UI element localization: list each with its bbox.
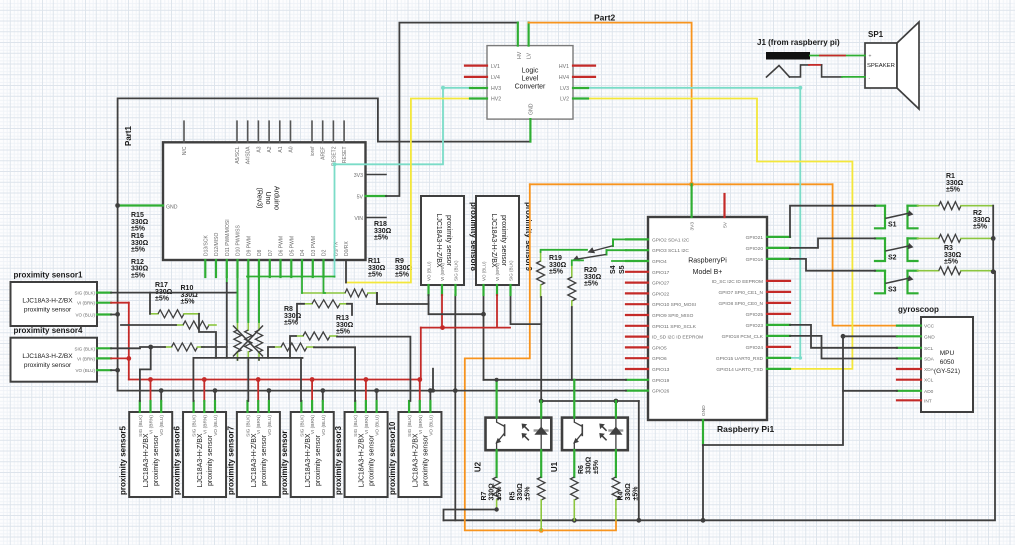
wire cyan arduino D1 <box>335 88 471 277</box>
svg-text:LJC18A3-H-Z/BX: LJC18A3-H-Z/BX <box>22 353 73 360</box>
resistor R2 zigzag <box>918 267 994 275</box>
svg-text:±5%: ±5% <box>374 235 389 242</box>
wire R8 right to sensor3 SIG <box>314 347 355 401</box>
wire jack to speaker + <box>810 55 865 57</box>
svg-text:D0/RX: D0/RX <box>344 241 350 256</box>
svg-text:A0: A0 <box>289 146 295 152</box>
wire opto transistor line <box>484 379 627 381</box>
svg-text:XCL: XCL <box>924 378 934 384</box>
wire sensor1 VI red <box>111 303 129 380</box>
resistor R4 330Ω vertical <box>612 450 639 509</box>
svg-text:±5%: ±5% <box>593 459 600 474</box>
svg-text:SCL: SCL <box>924 346 934 352</box>
svg-text:AREF: AREF <box>321 147 327 160</box>
label SP1 <box>868 30 884 39</box>
svg-text:VCC: VCC <box>924 324 935 330</box>
pins sensor1/4 legs y=282 <box>97 293 111 315</box>
resistor R3 zigzag <box>918 234 994 242</box>
pin LV4 red stub <box>465 76 487 78</box>
resistor R1 zigzag <box>918 202 994 210</box>
wire sensor8/9 VI red <box>421 295 510 380</box>
label R8 330Ω <box>284 306 302 327</box>
svg-text:D12/MISO: D12/MISO <box>214 233 220 256</box>
svg-text:RESET: RESET <box>342 147 348 164</box>
node cyan corner <box>798 86 802 360</box>
svg-text:R7: R7 <box>481 491 488 500</box>
svg-text:VI (BRN): VI (BRN) <box>495 262 500 281</box>
svg-text:±5%: ±5% <box>131 272 146 279</box>
wire jack red overlap <box>820 55 845 57</box>
optocoupler U1 <box>550 418 628 473</box>
wire RPi GPIO23 to MPU SCL <box>790 325 897 348</box>
svg-text:GPIO18 PCM_CLK: GPIO18 PCM_CLK <box>722 334 764 340</box>
svg-text:LJC18A3-H-Z/BX: LJC18A3-H-Z/BX <box>143 433 150 487</box>
svg-text:VI (BRN): VI (BRN) <box>418 415 424 435</box>
wire collector riser c <box>226 277 228 358</box>
switch S4 <box>572 250 606 261</box>
svg-text:A2: A2 <box>267 146 273 152</box>
svg-text:±5%: ±5% <box>944 259 959 266</box>
label R19 330Ω <box>549 255 567 276</box>
svg-text:GPIO11 SPI0_SCLK: GPIO11 SPI0_SCLK <box>652 324 697 330</box>
wire RPi GPIO20 to S2 <box>790 238 875 248</box>
svg-text:LJC18A3-H-Z/BX: LJC18A3-H-Z/BX <box>305 433 312 487</box>
svg-text:Raspberry Pi1: Raspberry Pi1 <box>717 424 774 434</box>
node GND-arduino <box>115 203 120 208</box>
svg-text:SIG (BLK): SIG (BLK) <box>509 260 514 281</box>
svg-text:VI (BRN): VI (BRN) <box>440 262 445 281</box>
pin LV1 red stub <box>465 64 487 66</box>
wire sensor1 VO to GND <box>111 314 118 316</box>
wire D2 to R9 <box>324 277 326 293</box>
svg-text:J1 (from raspberry pi): J1 (from raspberry pi) <box>757 38 840 47</box>
svg-text:±5%: ±5% <box>336 329 351 336</box>
svg-text:R5: R5 <box>510 491 517 500</box>
svg-text:GPIO6: GPIO6 <box>652 356 667 362</box>
svg-text:GPIO2 SDA1 I2C: GPIO2 SDA1 I2C <box>652 237 690 243</box>
pin MPU XDA red stub <box>897 368 921 370</box>
svg-text:±5%: ±5% <box>525 486 532 501</box>
svg-text:D5 PWM: D5 PWM <box>289 236 295 256</box>
svg-text:GPIO21: GPIO21 <box>746 235 764 241</box>
svg-text:GPIO4: GPIO4 <box>652 259 667 265</box>
svg-text:D9 PWM: D9 PWM <box>246 236 252 256</box>
proximity sensor10 LJC18A3-H-Z/BX <box>388 412 442 497</box>
wire x639 LED drop <box>638 401 640 520</box>
svg-text:SIG (BLK): SIG (BLK) <box>353 415 359 437</box>
wire RPi GND to MPU GND <box>703 336 897 445</box>
svg-text:Arduino: Arduino <box>273 186 280 210</box>
svg-text:GND: GND <box>701 405 707 416</box>
wire MPU AD0 left <box>843 390 897 392</box>
label gyroscoop <box>898 305 939 314</box>
svg-text:VO (BLU): VO (BLU) <box>482 261 487 281</box>
resistor R11 zigzag <box>304 300 347 308</box>
svg-text:±5%: ±5% <box>395 272 410 279</box>
svg-text:GPIO20: GPIO20 <box>746 246 764 252</box>
pin MPU INT red stub <box>897 399 921 401</box>
svg-text:SPEAKER: SPEAKER <box>867 63 895 69</box>
wire red VI bus <box>129 379 421 381</box>
resistor R10 zigzag <box>176 321 216 329</box>
wires VO drops black <box>159 388 433 401</box>
svg-text:proximity sensor: proximity sensor <box>369 434 376 486</box>
wire R4 bottom to orange <box>615 509 617 520</box>
wire RPi GPIO3 to S4 <box>607 249 627 251</box>
proximity sensor8 LJC18A3-H-Z/BX <box>421 196 478 285</box>
svg-text:VI (BRN): VI (BRN) <box>149 415 155 435</box>
svg-text:proximity sensor: proximity sensor <box>422 434 429 486</box>
svg-text:D6 PWM: D6 PWM <box>279 236 285 256</box>
wire yellow HV2 to arduino D0 <box>346 99 470 283</box>
svg-text:6050: 6050 <box>940 359 955 366</box>
label R1 330Ω <box>946 173 964 194</box>
svg-text:±5%: ±5% <box>946 187 961 194</box>
wire R10 left black <box>121 324 176 326</box>
wire R19 bottom to opto node <box>540 297 542 401</box>
wire orange Part2 top <box>529 23 692 185</box>
wire R9 right down <box>376 293 378 304</box>
svg-text:GPIO19: GPIO19 <box>652 378 670 384</box>
wire orange to MPU VCC <box>833 184 918 325</box>
svg-text:GPIO9 SPI0_MISO: GPIO9 SPI0_MISO <box>652 313 694 319</box>
svg-text:±5%: ±5% <box>181 299 196 306</box>
pins RPi left legs <box>626 239 648 390</box>
wire arduino VIN stub <box>366 217 387 219</box>
svg-text:VI (BRN): VI (BRN) <box>256 415 262 435</box>
resistor R9 zigzag <box>302 277 377 297</box>
svg-text:AD0: AD0 <box>924 389 934 395</box>
node VO bus bend <box>431 389 435 393</box>
wire U2 transistor leg <box>496 380 498 418</box>
svg-text:Part2: Part2 <box>594 13 616 23</box>
svg-text:330Ω: 330Ω <box>517 483 524 501</box>
switch S5 <box>588 239 614 253</box>
wire GND arduino loop <box>118 98 531 205</box>
svg-text:SIG (BLK): SIG (BLK) <box>74 346 95 351</box>
svg-text:HV2: HV2 <box>491 97 501 103</box>
svg-text:VI (BRN): VI (BRN) <box>77 301 96 306</box>
svg-text:LJC18A3-H-Z/BX: LJC18A3-H-Z/BX <box>490 213 497 267</box>
svg-text:N/C: N/C <box>182 146 188 155</box>
node opto LED U2 <box>539 399 544 404</box>
svg-text:330Ω: 330Ω <box>625 483 632 501</box>
wire converter HV stub <box>517 23 519 46</box>
node opto LED U1 <box>614 399 619 404</box>
svg-text:D10 PWM/SS: D10 PWM/SS <box>236 224 242 256</box>
wire orange rail mid <box>530 183 833 185</box>
svg-text:INT: INT <box>924 398 932 404</box>
node VO bus to drop <box>453 388 458 393</box>
wire orange down left <box>465 184 616 530</box>
svg-text:GPIO7 SPI0_CE1_N: GPIO7 SPI0_CE1_N <box>718 290 763 296</box>
svg-text:(GY-521): (GY-521) <box>934 368 960 375</box>
wire GND left vertical <box>117 206 119 391</box>
label R18 330Ω <box>374 221 392 242</box>
proximity sensor5 LJC18A3-H-Z/BX <box>119 412 173 497</box>
svg-text:proximity sensor3: proximity sensor3 <box>334 426 343 495</box>
optocoupler U2 <box>474 418 552 473</box>
node orange bottom U2 <box>539 528 544 533</box>
wire arduino 5V <box>366 23 518 196</box>
label Raspberry Pi1 <box>717 424 774 434</box>
svg-text:5V: 5V <box>357 195 364 201</box>
svg-text:SIG (BLK): SIG (BLK) <box>246 415 252 437</box>
svg-text:proximity sensor1: proximity sensor1 <box>14 271 83 280</box>
svg-text:LJC18A3-H-Z/BX: LJC18A3-H-Z/BX <box>197 433 204 487</box>
wire converter HV3 stub <box>470 87 487 89</box>
pin MPU VCC leg <box>897 325 921 327</box>
svg-text:SP1: SP1 <box>868 30 884 39</box>
svg-text:LV2: LV2 <box>560 97 569 103</box>
pin MPU SCL leg <box>897 347 921 349</box>
svg-text:SIG (BLK): SIG (BLK) <box>192 415 198 437</box>
wire R11 left <box>297 304 304 320</box>
svg-text:A4/SDA: A4/SDA <box>246 146 252 164</box>
svg-text:LJC18A3-H-Z/BX: LJC18A3-H-Z/BX <box>435 213 442 267</box>
svg-text:±5%: ±5% <box>155 296 170 303</box>
wire converter LV stub <box>527 23 529 46</box>
svg-text:LJC18A3-H-Z/BX: LJC18A3-H-Z/BX <box>251 433 258 487</box>
svg-text:GPIO26: GPIO26 <box>652 389 670 395</box>
label R11 330Ω <box>368 258 386 279</box>
label Part2 <box>594 13 616 23</box>
switch S1 <box>875 206 918 229</box>
svg-text:3V3: 3V3 <box>354 173 363 179</box>
wire riser R8 <box>268 347 274 358</box>
mpu 6050 gyroscope U-MPU (GY-521) <box>921 317 973 412</box>
svg-text:GPIO24: GPIO24 <box>746 345 764 351</box>
svg-text:D11 PWM/MOSI: D11 PWM/MOSI <box>225 219 231 256</box>
svg-text:GPIO10 SPI0_MOSI: GPIO10 SPI0_MOSI <box>652 302 696 308</box>
svg-text:proximity sensor: proximity sensor <box>280 431 289 495</box>
svg-text:LJC18A3-H-Z/BX: LJC18A3-H-Z/BX <box>412 433 419 487</box>
svg-text:GPIO13: GPIO13 <box>652 367 670 373</box>
wire RPi GND to bus <box>702 445 704 520</box>
svg-text:Logic: Logic <box>522 68 539 75</box>
node sensor1 VO junction <box>115 312 120 317</box>
svg-text:S4: S4 <box>610 265 617 274</box>
svg-text:proximity sensor9: proximity sensor9 <box>524 202 533 271</box>
svg-text:LJC18A3-H-Z/BX: LJC18A3-H-Z/BX <box>22 298 73 305</box>
switch S3 <box>875 271 918 294</box>
svg-text:A5/SCL: A5/SCL <box>235 146 241 163</box>
wire S4 to R20 top <box>572 260 583 265</box>
svg-text:GPIO27: GPIO27 <box>652 281 670 287</box>
svg-text:±5%: ±5% <box>973 224 988 231</box>
proximity sensor LJC18A3-H-Z/BX <box>280 412 334 497</box>
svg-text:3V3: 3V3 <box>690 222 696 231</box>
node R2 right <box>991 269 996 274</box>
svg-text:MPU: MPU <box>940 350 955 357</box>
wire arduino D0 leg <box>345 260 347 283</box>
svg-text:LV: LV <box>527 53 533 59</box>
svg-text:proximity sensor: proximity sensor <box>153 434 160 486</box>
resistor R17 zigzag <box>150 310 199 318</box>
pin MPU GND leg <box>897 335 921 337</box>
resistor R5 330Ω vertical <box>510 450 546 509</box>
label R2 330Ω <box>973 210 991 231</box>
svg-text:SIG (BLK): SIG (BLK) <box>74 291 95 296</box>
pins RPi right legs <box>767 237 790 369</box>
node U2 transistor top <box>495 378 499 382</box>
logic level converter U-LLC <box>487 46 573 120</box>
wire R5 bottom to orange <box>540 509 542 530</box>
label R10 330Ω <box>181 285 199 306</box>
wire sensor9 VO drop <box>483 295 485 380</box>
svg-text:HV1: HV1 <box>559 64 569 70</box>
svg-text:GND: GND <box>166 204 178 210</box>
svg-text:VO (BLU): VO (BLU) <box>428 415 434 436</box>
label R9 330Ω <box>395 258 413 279</box>
svg-text:U2: U2 <box>474 461 483 472</box>
pins sensor at x=476 legs <box>484 285 511 295</box>
wire cluster diag link <box>347 304 352 315</box>
svg-text:ID_SC I2C ID EEPROM: ID_SC I2C ID EEPROM <box>712 279 763 285</box>
pins sensor1/4 legs y=337.7 <box>97 348 111 370</box>
wire sensor8 SIG vertical / GND drop <box>454 295 456 520</box>
svg-text:S3: S3 <box>888 287 897 294</box>
node sensor4 VI <box>126 356 131 361</box>
label Part1 <box>124 125 133 146</box>
label R3 330Ω <box>944 245 962 266</box>
svg-text:SIG (BLK): SIG (BLK) <box>407 415 413 437</box>
svg-text:D3 PWM: D3 PWM <box>311 236 317 256</box>
proximity sensor3 LJC18A3-H-Z/BX <box>334 412 388 497</box>
svg-text:proximity sensor6: proximity sensor6 <box>173 426 182 495</box>
wire sensor9 SIG to R19 line <box>511 295 542 324</box>
node R3 right <box>991 236 996 241</box>
wire converter LV2 stub <box>573 97 588 99</box>
svg-text:Converter: Converter <box>515 84 546 91</box>
svg-text:D13/SCK: D13/SCK <box>203 234 209 256</box>
wires SIG staircases <box>140 345 303 401</box>
wire R6 bottom to bus <box>573 509 575 520</box>
pin MPU XCL red stub <box>897 379 921 381</box>
svg-text:R6: R6 <box>578 465 585 474</box>
proximity sensor6 LJC18A3-H-Z/BX <box>173 412 227 497</box>
svg-text:D2: D2 <box>322 249 328 256</box>
svg-text:D7: D7 <box>268 249 274 256</box>
svg-text:±5%: ±5% <box>549 269 564 276</box>
wire RPi 5V leg red <box>723 194 725 217</box>
pin HV1 red stub <box>573 64 595 66</box>
svg-text:330Ω: 330Ω <box>489 483 496 501</box>
wire yellow LV2 to RPi <box>588 99 852 369</box>
svg-text:A3: A3 <box>256 146 262 152</box>
svg-text:GPIO16: GPIO16 <box>746 257 764 263</box>
svg-text:VIN: VIN <box>354 216 363 222</box>
svg-text:ID_SD I2C ID EEPROM: ID_SD I2C ID EEPROM <box>652 335 703 341</box>
svg-text:proximity sensor7: proximity sensor7 <box>226 426 235 495</box>
svg-text:RaspberryPi: RaspberryPi <box>688 258 727 265</box>
svg-text:330Ω: 330Ω <box>586 456 593 474</box>
wire RPi 3V3 leg <box>690 184 692 217</box>
wire converter HV2 stub <box>470 97 487 99</box>
svg-text:proximity sensor5: proximity sensor5 <box>119 426 128 495</box>
svg-text:SDA: SDA <box>924 357 935 363</box>
svg-text:GND: GND <box>924 334 935 340</box>
resistor R8 zigzag <box>274 343 314 351</box>
resistor R19 zigzag <box>537 252 545 297</box>
svg-text:VO (BLU): VO (BLU) <box>159 415 165 436</box>
node bottom bus RPi GND <box>701 518 706 523</box>
wire converter LV3 stub <box>573 87 588 89</box>
svg-text:SIG (BLK): SIG (BLK) <box>138 415 144 437</box>
svg-text:D8: D8 <box>257 249 263 256</box>
label R12 330Ω <box>131 259 149 280</box>
svg-text:GPIO17: GPIO17 <box>652 270 670 276</box>
wire R1R2R3 right vertical <box>993 206 995 272</box>
svg-text:VI (BRN): VI (BRN) <box>77 356 96 361</box>
wire RPi GPIO2 to S5 <box>613 238 626 240</box>
proximity sensor7 LJC18A3-H-Z/BX <box>226 412 280 497</box>
resistor R13 zigzag <box>296 332 337 340</box>
svg-text:R4: R4 <box>618 491 625 500</box>
svg-text:±5%: ±5% <box>584 281 599 288</box>
wire riser sensor10 SIG <box>432 369 434 391</box>
proximity sensor4 LJC18A3-H-Z/BX <box>11 326 98 382</box>
svg-text:U1: U1 <box>550 461 559 472</box>
speaker SP1 <box>865 22 919 109</box>
svg-text:VI (BRN): VI (BRN) <box>310 415 316 435</box>
svg-text:proximity sensor4: proximity sensor4 <box>14 326 83 335</box>
resistor R7 330Ω vertical <box>481 450 503 509</box>
node bottom bus U2 leg <box>572 518 577 523</box>
switch S2 <box>875 238 918 261</box>
wire jack to speaker - <box>842 76 865 78</box>
wire RPi GND bottom <box>702 420 704 445</box>
node orange junction <box>689 182 694 187</box>
svg-text:GPIO23: GPIO23 <box>746 323 764 329</box>
node R7 bottom <box>494 507 498 511</box>
label S4 S5 <box>610 265 626 274</box>
label R13 330Ω <box>336 315 354 336</box>
wire bottom GND bus <box>444 272 996 521</box>
svg-text:proximity sensor10: proximity sensor10 <box>388 421 397 495</box>
label R16 330Ω <box>131 233 149 254</box>
wires arduino digital legs <box>205 260 323 322</box>
wire S5 to R19 top <box>541 250 587 252</box>
resistor network R14 crossed <box>234 322 263 360</box>
label J1 (from raspberry pi) <box>757 38 840 47</box>
wire RPi GPIO21 to S1 <box>790 206 875 237</box>
svg-text:Model B+: Model B+ <box>693 269 723 276</box>
wire R20 bottom to opto line <box>571 307 573 380</box>
svg-text:GPIO8 SPI0_CE0_N: GPIO8 SPI0_CE0_N <box>718 301 763 307</box>
label R15 330Ω <box>131 212 149 233</box>
wire sensor4 VI red <box>111 357 129 359</box>
pin MPU AD0 leg <box>897 390 921 392</box>
svg-text:XDA: XDA <box>924 367 935 373</box>
label R17 330Ω <box>155 282 173 303</box>
label R20 330Ω <box>584 267 602 288</box>
svg-text:gyroscoop: gyroscoop <box>898 305 939 314</box>
resistor R20 zigzag <box>568 265 576 307</box>
svg-text:VO (BLU): VO (BLU) <box>375 415 381 436</box>
wire RPi GPIO4 short <box>612 260 626 262</box>
svg-text:proximity sensor: proximity sensor <box>207 434 214 486</box>
svg-text:GPIO3 SCL1 I2C: GPIO3 SCL1 I2C <box>652 248 689 254</box>
svg-text:LV3: LV3 <box>560 86 569 92</box>
svg-text:VO (BLU): VO (BLU) <box>75 313 95 318</box>
node bottom bus x639 <box>636 518 641 523</box>
svg-text:proximity sensor: proximity sensor <box>24 307 72 314</box>
node MPU GND junction <box>841 334 846 339</box>
svg-text:A1: A1 <box>278 146 284 152</box>
node cyan bend <box>333 86 446 167</box>
svg-text:VO (BLU): VO (BLU) <box>75 368 95 373</box>
